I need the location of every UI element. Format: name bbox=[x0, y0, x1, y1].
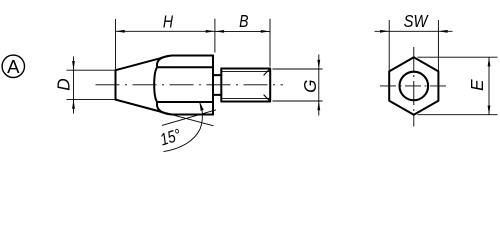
svg-text:D: D bbox=[54, 78, 74, 90]
svg-text:SW: SW bbox=[404, 11, 429, 31]
svg-text:E: E bbox=[467, 79, 487, 91]
svg-text:G: G bbox=[300, 80, 320, 93]
svg-text:A: A bbox=[7, 56, 20, 77]
svg-text:B: B bbox=[239, 12, 249, 32]
svg-text:H: H bbox=[163, 12, 173, 32]
